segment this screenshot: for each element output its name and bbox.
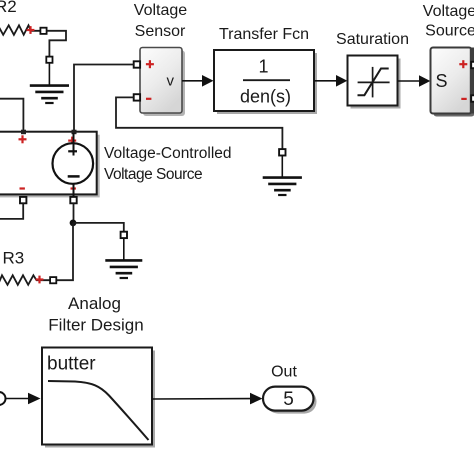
svg-text:Analog: Analog	[68, 294, 121, 313]
port square R3 right	[50, 277, 56, 283]
butter filter curve	[48, 381, 149, 440]
voltage source plus label	[459, 60, 467, 68]
svg-text:Voltage-Controlled: Voltage-Controlled	[104, 145, 232, 162]
voltage source right edge dark band	[470, 48, 474, 114]
port square sensor minus	[134, 94, 140, 100]
label R3	[3, 249, 25, 268]
svg-text:5: 5	[283, 389, 294, 410]
arrowhead into Voltage Source	[419, 75, 430, 87]
wire Transfer Fcn to Saturation	[314, 80, 337, 82]
svg-text:Voltage: Voltage	[134, 2, 187, 19]
VCVS internal wire top	[73, 133, 75, 156]
saturation block shadow	[351, 59, 401, 109]
resistor R2	[0, 25, 40, 35]
label R2	[0, 0, 17, 16]
VCVS top-right port mark	[72, 130, 77, 135]
transfer fcn denominator den(s)	[240, 87, 291, 107]
VCVS internal wire bottom	[73, 184, 75, 197]
wire VCVS bottom-left to left edge	[0, 203, 23, 219]
ground G3	[263, 156, 302, 196]
svg-text:Voltage: Voltage	[423, 3, 474, 20]
junction dot node A	[70, 220, 77, 227]
VCVS internal minus	[68, 175, 80, 178]
port square voltage source minus	[471, 95, 474, 101]
label Out	[271, 364, 297, 381]
voltage source block U2 shadow	[434, 51, 474, 117]
svg-text:Sensor: Sensor	[135, 23, 186, 40]
VCVS minus label bottom-right (under wire)	[71, 187, 76, 189]
butter block shadow	[45, 351, 155, 448]
VCVS minus label bottom-left	[20, 187, 25, 189]
arrowhead into Out5	[250, 393, 263, 405]
butter block text	[47, 354, 96, 375]
label Analog Filter Design	[48, 294, 143, 335]
red plus at R3 terminal	[36, 276, 44, 284]
port square VCVS bottom-right	[70, 197, 76, 203]
label Voltage Sensor	[134, 2, 187, 40]
transfer fcn numerator 1	[258, 57, 268, 77]
wire junction to ground G2	[73, 223, 124, 232]
arrowhead into Saturation	[336, 75, 347, 87]
outport block Out5	[263, 387, 314, 411]
port square voltage source plus	[471, 62, 474, 68]
wire sensor minus to ground G3	[116, 97, 282, 149]
inport oval (partial at left edge)	[0, 392, 6, 405]
arrowhead into butter block	[28, 393, 41, 405]
svg-text:S: S	[435, 71, 447, 91]
voltage source S label	[435, 71, 447, 91]
VCVS source circle	[53, 143, 94, 184]
saturation block	[348, 56, 398, 106]
saturation icon	[358, 67, 390, 98]
svg-text:butter: butter	[47, 354, 96, 375]
arrowhead into Transfer Fcn	[202, 75, 214, 87]
voltage sensor block U1 shadow	[143, 51, 185, 117]
svg-text:Saturation: Saturation	[336, 31, 409, 48]
VCVS plus label top-right (on wire)	[68, 137, 76, 145]
VCVS block U3 shadow	[0, 135, 100, 198]
voltage sensor block U1	[140, 48, 182, 114]
port square R2 right	[40, 28, 46, 34]
VCVS block U3	[0, 132, 97, 195]
port square VCVS bottom-left	[20, 197, 26, 203]
wire VCVS bottom-right down to junction	[73, 203, 75, 223]
svg-text:R3: R3	[3, 249, 25, 268]
port square ground G3	[279, 149, 285, 155]
VCVS top-left port mark	[21, 130, 26, 135]
wire R2 to ground G1	[47, 31, 66, 57]
wire inport to butter block	[6, 398, 30, 400]
red plus at R2 terminal	[27, 26, 35, 34]
port square ground G1	[46, 57, 52, 63]
label Transfer Fcn	[219, 26, 309, 43]
svg-text:Transfer Fcn: Transfer Fcn	[219, 26, 309, 43]
butter block	[42, 348, 152, 445]
outport block Out5 shadow	[266, 390, 317, 414]
port square sensor plus	[134, 61, 140, 67]
svg-text:Source: Source	[425, 23, 474, 40]
resistor R3	[0, 275, 50, 285]
svg-text:R2: R2	[0, 0, 17, 16]
port square ground G2	[121, 232, 127, 238]
wire junction down to R3	[57, 223, 73, 280]
svg-text:den(s): den(s)	[240, 87, 291, 107]
wire butter block to Out5	[152, 398, 251, 400]
transfer fcn block shadow	[217, 53, 317, 114]
transfer fcn block	[214, 50, 314, 111]
wire Saturation to Voltage Source	[398, 80, 421, 82]
svg-text:Voltage Source: Voltage Source	[104, 166, 202, 183]
voltage sensor minus label	[146, 98, 151, 100]
voltage sensor v label	[167, 73, 175, 90]
svg-text:1: 1	[258, 57, 268, 77]
svg-text:v: v	[167, 73, 175, 90]
ground G1	[30, 63, 69, 103]
outport number 5	[283, 389, 294, 410]
label Voltage Source	[423, 3, 474, 40]
wire sensor output to Transfer Fcn	[182, 80, 203, 82]
voltage source minus label	[461, 98, 466, 100]
ground G2	[105, 238, 142, 278]
label Voltage-Controlled Voltage Source	[104, 145, 232, 183]
wire VCVS top-right port to sensor plus	[74, 65, 134, 131]
svg-text:Filter Design: Filter Design	[48, 316, 143, 335]
VCVS plus label top-left	[19, 135, 27, 143]
voltage source block U2	[431, 48, 472, 114]
svg-text:Out: Out	[271, 364, 297, 381]
voltage sensor plus label	[146, 60, 154, 68]
transfer fcn fraction line	[243, 79, 290, 81]
VCVS internal plus	[68, 150, 77, 152]
label Saturation	[336, 31, 409, 48]
wire from left edge to VCVS top-left port	[0, 99, 23, 131]
